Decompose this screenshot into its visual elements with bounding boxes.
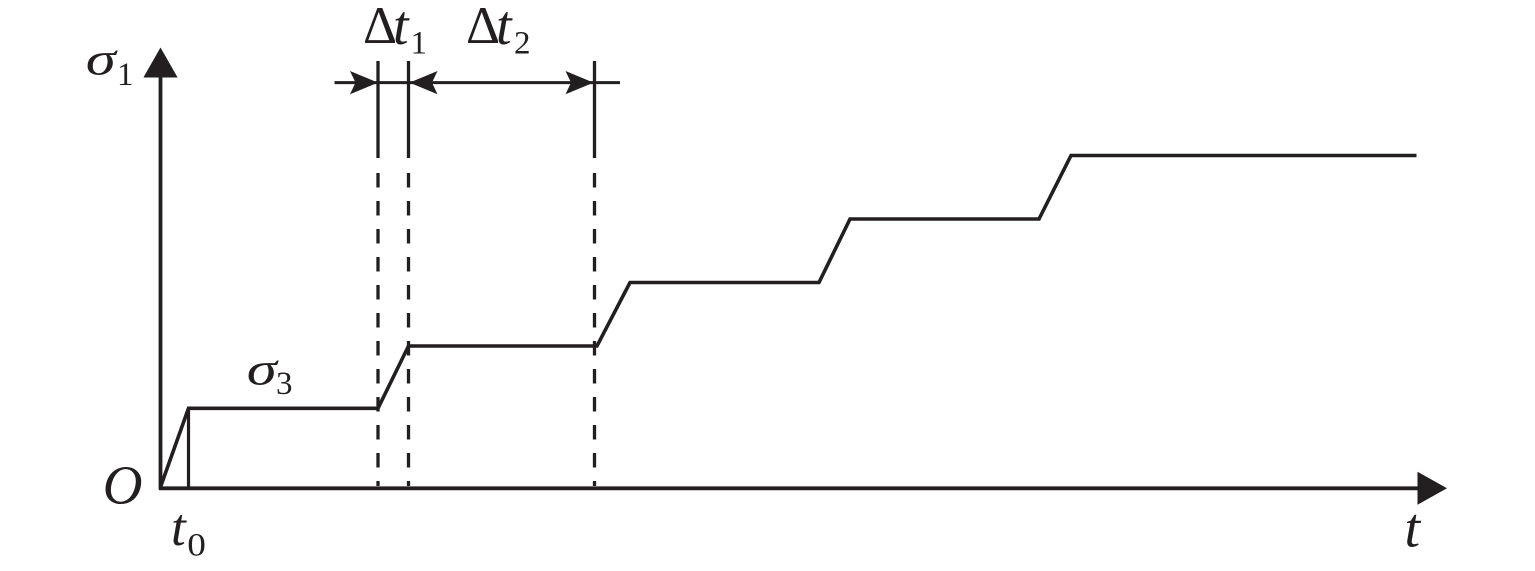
svg-text:Δ: Δ	[466, 0, 500, 55]
svg-text:O: O	[103, 455, 143, 516]
svg-text:2: 2	[514, 26, 531, 62]
svg-text:σ: σ	[247, 343, 280, 395]
svg-text:t: t	[171, 499, 187, 557]
svg-text:t: t	[496, 0, 513, 57]
svg-text:Δ: Δ	[363, 0, 397, 55]
svg-text:1: 1	[117, 57, 134, 93]
svg-text:t: t	[393, 0, 410, 57]
svg-text:σ: σ	[86, 33, 119, 85]
svg-text:1: 1	[411, 26, 428, 62]
svg-text:3: 3	[276, 366, 293, 402]
svg-text:t: t	[1405, 498, 1422, 560]
svg-text:0: 0	[187, 526, 206, 563]
